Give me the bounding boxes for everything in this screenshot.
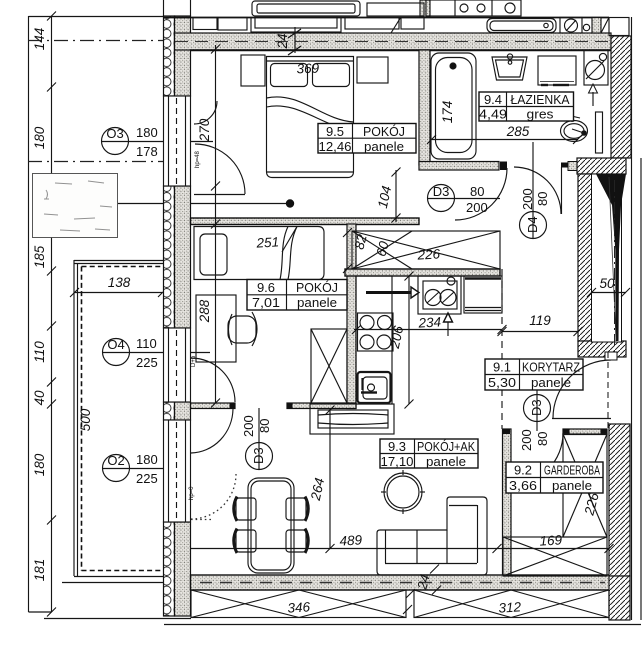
sofa xyxy=(377,497,487,575)
svg-text:200: 200 xyxy=(520,188,535,210)
label 9.4 xyxy=(479,92,574,122)
svg-text:180: 180 xyxy=(136,125,158,140)
svg-text:POKÓJ+AK: POKÓJ+AK xyxy=(417,439,475,454)
counter along wall xyxy=(356,276,393,404)
nightstand left xyxy=(241,55,265,86)
svg-text:489: 489 xyxy=(339,532,363,548)
door of 9.6 + O4 swing xyxy=(191,409,233,453)
svg-text:9.3: 9.3 xyxy=(388,439,406,454)
O2 dotted swing xyxy=(191,474,236,519)
svg-text:panele: panele xyxy=(364,139,404,154)
leader to dot xyxy=(118,203,290,205)
svg-text:POKÓJ: POKÓJ xyxy=(363,124,405,139)
svg-text:7,01: 7,01 xyxy=(252,295,280,310)
svg-text:O3: O3 xyxy=(106,126,123,141)
dims living room xyxy=(329,408,331,548)
svg-text:17,10: 17,10 xyxy=(381,454,414,469)
wall bedroom/bathroom xyxy=(419,50,430,165)
wardrobe right of bed xyxy=(357,57,388,83)
svg-text:5,30: 5,30 xyxy=(488,375,516,390)
svg-text:110: 110 xyxy=(136,336,157,351)
svg-text:144: 144 xyxy=(32,28,47,51)
svg-text:285: 285 xyxy=(506,124,530,139)
dining table xyxy=(248,478,294,573)
outer face lines right xyxy=(631,17,633,620)
138 dim xyxy=(74,292,162,294)
window circles left xyxy=(101,128,213,482)
garderoba top wall xyxy=(563,429,607,435)
svg-text:234: 234 xyxy=(417,314,441,330)
svg-text:9.4: 9.4 xyxy=(484,92,502,107)
svg-text:180: 180 xyxy=(32,453,47,476)
toilet xyxy=(561,112,603,153)
office chair xyxy=(228,312,257,346)
washing machine xyxy=(538,56,576,85)
upper cabinets crossed band xyxy=(352,231,500,269)
svg-text:panele: panele xyxy=(297,295,337,310)
svg-text:225: 225 xyxy=(136,355,158,370)
svg-text:288: 288 xyxy=(197,299,212,323)
entrance door xyxy=(553,360,611,418)
svg-text:panele: panele xyxy=(552,478,592,493)
svg-text:24: 24 xyxy=(275,33,290,49)
svg-text:80: 80 xyxy=(470,184,484,199)
svg-text:50: 50 xyxy=(599,276,615,291)
svg-text:12,46: 12,46 xyxy=(319,139,352,154)
stamp box xyxy=(33,174,118,238)
svg-text:174: 174 xyxy=(440,101,455,124)
svg-text:D3: D3 xyxy=(529,399,544,416)
svg-text:gres: gres xyxy=(527,107,555,122)
svg-text:178: 178 xyxy=(136,144,158,159)
svg-text:POKÓJ: POKÓJ xyxy=(296,280,338,295)
wardrobe 9.6 xyxy=(311,329,347,403)
top party wall xyxy=(175,33,612,50)
svg-text:80: 80 xyxy=(535,192,550,206)
label 9.5 xyxy=(318,124,416,155)
vent arrow xyxy=(592,92,594,106)
svg-text:270: 270 xyxy=(197,118,212,142)
window O2 in wall xyxy=(164,420,191,522)
svg-text:185: 185 xyxy=(32,245,47,268)
svg-text:225: 225 xyxy=(136,471,158,486)
svg-text:O2: O2 xyxy=(107,453,124,468)
kitchen low wall xyxy=(345,269,500,276)
left exterior wall blocks: insulation bubbles + masonry stipple xyxy=(164,16,191,616)
svg-text:180: 180 xyxy=(136,452,158,467)
svg-text:226: 226 xyxy=(416,246,441,262)
dash-dot lines xyxy=(28,40,168,42)
bathroom doors D3/D4 xyxy=(455,168,507,220)
svg-text:200: 200 xyxy=(466,200,488,215)
desk xyxy=(196,295,236,362)
washbasin xyxy=(492,54,527,80)
svg-text:369: 369 xyxy=(296,61,320,77)
svg-text:hp=0: hp=0 xyxy=(189,486,195,500)
svg-text:181: 181 xyxy=(32,559,47,582)
bathroom bottom wall xyxy=(419,162,499,171)
svg-text:KORYTARZ: KORYTARZ xyxy=(522,360,580,375)
svg-text:hp=48: hp=48 xyxy=(195,150,201,168)
svg-text:346: 346 xyxy=(287,599,311,615)
sheet border left xyxy=(28,16,30,612)
svg-text:312: 312 xyxy=(498,599,522,615)
svg-text:169: 169 xyxy=(539,532,563,548)
svg-text:panele: panele xyxy=(426,454,466,469)
svg-text:O4: O4 xyxy=(107,337,124,352)
bedroom bottom wall xyxy=(191,218,420,225)
svg-text:138: 138 xyxy=(108,275,131,290)
top border left part xyxy=(29,16,164,18)
svg-text:180: 180 xyxy=(32,126,47,149)
korytarz dashed boundary xyxy=(501,269,503,429)
svg-text:9.2: 9.2 xyxy=(514,463,532,478)
TV cabinet xyxy=(310,404,394,434)
svg-text:9.1: 9.1 xyxy=(493,360,511,375)
bottom exterior wall xyxy=(191,575,610,590)
svg-text:ŁAZIENKA: ŁAZIENKA xyxy=(511,92,570,107)
svg-text:9.6: 9.6 xyxy=(257,280,275,295)
svg-text:D3: D3 xyxy=(433,184,450,199)
svg-text:D3: D3 xyxy=(251,447,266,464)
svg-text:3,66: 3,66 xyxy=(509,478,537,493)
svg-text:80: 80 xyxy=(535,432,550,446)
chairs xyxy=(234,497,309,554)
round table xyxy=(381,470,425,514)
label 9.3 xyxy=(380,439,478,469)
window O3 in wall xyxy=(164,96,191,186)
svg-text:500: 500 xyxy=(78,408,93,431)
label 9.6 xyxy=(247,280,347,311)
ground line bottom xyxy=(44,618,191,620)
svg-text:119: 119 xyxy=(529,313,551,328)
104 dim xyxy=(395,170,397,222)
svg-text:110: 110 xyxy=(32,341,47,363)
wall between room 9.6 and kitchen xyxy=(347,224,356,409)
D3 garderoba circle xyxy=(524,390,551,431)
cooktop 2 rings xyxy=(418,276,461,314)
svg-text:9.5: 9.5 xyxy=(326,124,344,139)
room 9.6 bottom wall xyxy=(191,403,236,409)
window O4 in wall xyxy=(164,328,191,402)
vent shaft xyxy=(584,50,608,85)
svg-text:200: 200 xyxy=(241,415,256,437)
svg-text:4,49: 4,49 xyxy=(479,107,507,122)
svg-text:80: 80 xyxy=(257,419,272,433)
svg-text:40: 40 xyxy=(32,390,47,406)
dim line 270/288 xyxy=(215,45,217,403)
dim chain vertical line xyxy=(51,16,53,612)
garderoba left wall xyxy=(503,429,512,575)
svg-text:D4: D4 xyxy=(525,216,540,233)
svg-text:GARDEROBA: GARDEROBA xyxy=(544,463,600,478)
svg-text:200: 200 xyxy=(519,429,534,451)
double bed xyxy=(267,57,354,178)
svg-text:251: 251 xyxy=(255,234,279,250)
loggia window right xyxy=(592,174,627,352)
bedroom door arcs xyxy=(195,144,245,194)
fridge xyxy=(464,276,502,313)
arrow into kitchen xyxy=(366,291,411,294)
206 dim xyxy=(408,276,410,404)
neighbour floor line xyxy=(163,17,609,19)
